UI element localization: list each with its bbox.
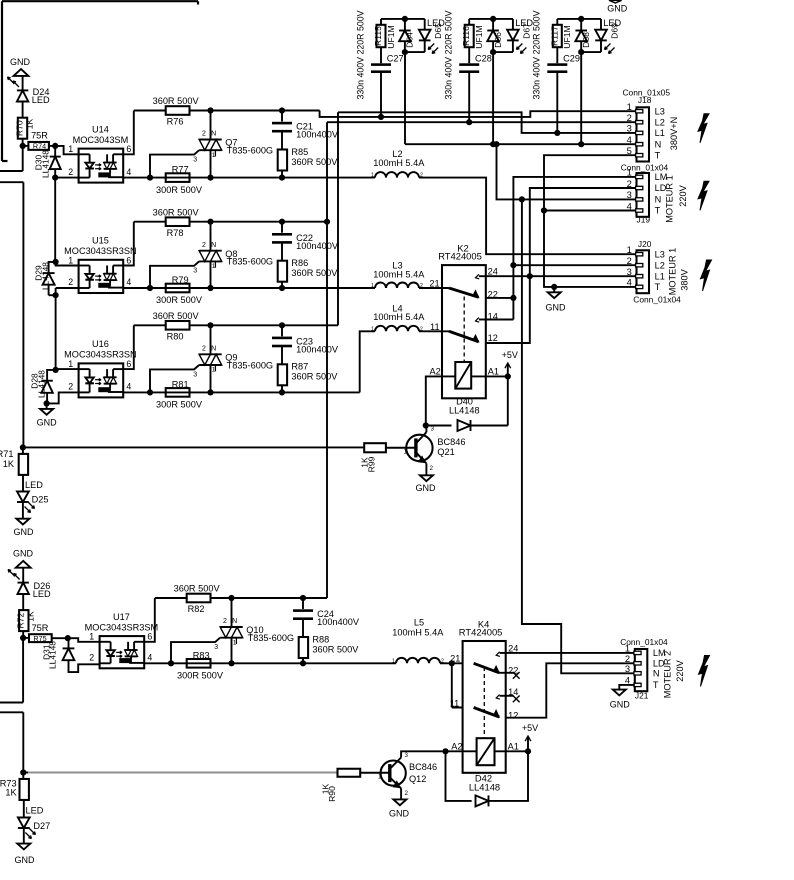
svg-text:+5V: +5V bbox=[522, 723, 538, 733]
svg-text:R82: R82 bbox=[188, 604, 205, 614]
svg-text:2: 2 bbox=[430, 465, 434, 472]
svg-text:D27: D27 bbox=[33, 821, 50, 831]
svg-text:360R 500V: 360R 500V bbox=[291, 157, 338, 167]
svg-text:GND: GND bbox=[10, 57, 31, 67]
svg-text:N: N bbox=[211, 131, 216, 138]
svg-text:R78: R78 bbox=[167, 228, 184, 238]
svg-text:4: 4 bbox=[627, 200, 632, 211]
svg-text:2: 2 bbox=[68, 382, 73, 392]
svg-text:1K: 1K bbox=[24, 118, 34, 129]
svg-text:R70: R70 bbox=[14, 120, 24, 136]
svg-text:2: 2 bbox=[202, 131, 206, 138]
svg-text:360R 500V: 360R 500V bbox=[174, 584, 221, 594]
svg-text:RT424005: RT424005 bbox=[459, 626, 503, 637]
svg-text:12: 12 bbox=[508, 711, 518, 721]
svg-text:1: 1 bbox=[89, 632, 94, 642]
svg-text:GND: GND bbox=[389, 809, 410, 819]
svg-text:11: 11 bbox=[430, 322, 440, 332]
svg-text:300R 500V: 300R 500V bbox=[177, 671, 224, 681]
svg-text:D64: D64 bbox=[405, 32, 415, 48]
svg-text:Q12: Q12 bbox=[409, 774, 426, 784]
svg-text:T: T bbox=[653, 680, 659, 690]
svg-text:3: 3 bbox=[627, 189, 632, 200]
svg-text:3: 3 bbox=[627, 266, 632, 277]
svg-text:D66: D66 bbox=[493, 32, 503, 48]
svg-text:4: 4 bbox=[147, 653, 152, 663]
svg-text:GND: GND bbox=[607, 4, 628, 14]
svg-text:R116: R116 bbox=[461, 26, 471, 46]
svg-text:D68: D68 bbox=[581, 32, 591, 48]
svg-text:4: 4 bbox=[627, 134, 632, 145]
svg-text:L1: L1 bbox=[655, 128, 665, 138]
svg-text:75R: 75R bbox=[31, 131, 48, 141]
svg-text:1: 1 bbox=[68, 144, 73, 154]
svg-text:5: 5 bbox=[627, 145, 632, 156]
svg-text:1: 1 bbox=[627, 244, 632, 255]
svg-text:21: 21 bbox=[450, 654, 460, 664]
svg-text:J19: J19 bbox=[637, 214, 651, 224]
svg-text:BC846: BC846 bbox=[409, 762, 437, 772]
svg-text:U16: U16 bbox=[92, 339, 109, 349]
svg-text:LED: LED bbox=[26, 806, 44, 816]
svg-text:MOTEUR 1: MOTEUR 1 bbox=[668, 248, 678, 295]
svg-text:U14: U14 bbox=[92, 124, 109, 134]
svg-text:360R 500V: 360R 500V bbox=[153, 311, 200, 321]
svg-text:D67: D67 bbox=[521, 23, 531, 39]
svg-text:R115: R115 bbox=[373, 26, 383, 46]
svg-text:+5V: +5V bbox=[502, 350, 518, 360]
svg-text:LED: LED bbox=[25, 480, 43, 490]
svg-text:GND: GND bbox=[37, 418, 58, 428]
svg-text:R117: R117 bbox=[549, 26, 559, 46]
svg-text:N: N bbox=[232, 618, 237, 625]
svg-text:UF1M: UF1M bbox=[562, 25, 572, 48]
svg-text:T835-600G: T835-600G bbox=[227, 257, 273, 267]
svg-text:3: 3 bbox=[625, 663, 630, 674]
svg-text:360R 500V: 360R 500V bbox=[153, 207, 200, 217]
svg-text:2: 2 bbox=[627, 178, 632, 189]
svg-text:A1: A1 bbox=[488, 366, 499, 376]
svg-text:24: 24 bbox=[488, 266, 498, 276]
svg-text:Conn_01x04: Conn_01x04 bbox=[621, 163, 669, 173]
svg-text:Q21: Q21 bbox=[437, 447, 454, 457]
svg-text:1: 1 bbox=[627, 101, 632, 112]
svg-text:R85: R85 bbox=[291, 147, 308, 157]
svg-text:330n 400V 220R 500V: 330n 400V 220R 500V bbox=[444, 10, 454, 99]
svg-text:1: 1 bbox=[68, 255, 73, 265]
svg-text:LL4148: LL4148 bbox=[40, 150, 50, 178]
svg-text:22: 22 bbox=[488, 290, 498, 300]
svg-text:4: 4 bbox=[126, 277, 131, 287]
svg-text:J18: J18 bbox=[638, 95, 652, 105]
svg-text:2: 2 bbox=[627, 255, 632, 266]
svg-text:L5: L5 bbox=[414, 618, 424, 628]
svg-text:C29: C29 bbox=[563, 54, 580, 64]
svg-text:R72: R72 bbox=[16, 612, 26, 628]
svg-text:2: 2 bbox=[89, 653, 94, 663]
svg-text:R77: R77 bbox=[172, 165, 189, 175]
svg-text:12: 12 bbox=[488, 333, 498, 343]
svg-text:UF1M: UF1M bbox=[474, 25, 484, 48]
svg-text:L3: L3 bbox=[655, 106, 665, 116]
svg-text:360R 500V: 360R 500V bbox=[291, 372, 338, 382]
svg-text:GND: GND bbox=[610, 699, 631, 709]
svg-text:6: 6 bbox=[126, 144, 131, 154]
svg-text:100n400V: 100n400V bbox=[296, 344, 339, 354]
svg-text:380V: 380V bbox=[679, 268, 689, 290]
svg-text:2: 2 bbox=[405, 790, 409, 797]
svg-text:100n400V: 100n400V bbox=[296, 241, 339, 251]
svg-text:N: N bbox=[653, 669, 660, 679]
svg-text:300R 500V: 300R 500V bbox=[156, 295, 203, 305]
svg-text:3: 3 bbox=[405, 752, 409, 759]
svg-text:R81: R81 bbox=[172, 380, 189, 390]
svg-text:GND: GND bbox=[546, 303, 567, 313]
svg-text:6: 6 bbox=[147, 632, 152, 642]
svg-text:1: 1 bbox=[371, 283, 374, 289]
svg-text:4: 4 bbox=[627, 277, 632, 288]
svg-text:N: N bbox=[211, 242, 216, 249]
svg-text:2: 2 bbox=[223, 618, 227, 625]
svg-text:T: T bbox=[655, 282, 661, 292]
svg-text:3: 3 bbox=[627, 123, 632, 134]
svg-text:RT424005: RT424005 bbox=[438, 251, 482, 262]
svg-text:100mH 5.4A: 100mH 5.4A bbox=[373, 158, 425, 168]
svg-text:380V+N: 380V+N bbox=[669, 117, 679, 150]
svg-text:1: 1 bbox=[403, 449, 407, 456]
svg-text:A1: A1 bbox=[508, 742, 519, 752]
svg-text:T835-600G: T835-600G bbox=[248, 633, 294, 643]
svg-text:R99: R99 bbox=[367, 456, 377, 472]
svg-text:N: N bbox=[655, 195, 662, 205]
svg-text:R87: R87 bbox=[291, 362, 308, 372]
svg-text:MOC3043SM: MOC3043SM bbox=[73, 135, 129, 145]
svg-text:R80: R80 bbox=[167, 332, 184, 342]
svg-text:11: 11 bbox=[450, 698, 460, 708]
svg-text:LED: LED bbox=[33, 589, 51, 599]
svg-text:UF1M: UF1M bbox=[386, 25, 396, 48]
svg-text:360R 500V: 360R 500V bbox=[291, 268, 338, 278]
svg-text:L2: L2 bbox=[655, 117, 665, 127]
svg-text:2: 2 bbox=[68, 277, 73, 287]
svg-text:R88: R88 bbox=[312, 634, 329, 644]
svg-text:R90: R90 bbox=[327, 786, 337, 802]
svg-text:4: 4 bbox=[126, 382, 131, 392]
svg-text:1: 1 bbox=[212, 152, 216, 159]
svg-text:1: 1 bbox=[233, 639, 237, 646]
svg-text:R76: R76 bbox=[167, 117, 184, 127]
svg-text:1: 1 bbox=[378, 774, 382, 781]
svg-text:U17: U17 bbox=[113, 612, 130, 622]
svg-text:LL4148: LL4148 bbox=[449, 405, 480, 415]
svg-text:A2: A2 bbox=[451, 742, 462, 752]
svg-text:J21: J21 bbox=[635, 691, 649, 701]
svg-text:3: 3 bbox=[193, 371, 197, 378]
svg-text:75R: 75R bbox=[32, 623, 49, 633]
svg-text:100mH 5.4A: 100mH 5.4A bbox=[373, 312, 425, 322]
svg-text:L3: L3 bbox=[655, 249, 665, 259]
svg-text:300R 500V: 300R 500V bbox=[156, 400, 203, 410]
svg-text:360R 500V: 360R 500V bbox=[153, 96, 200, 106]
svg-text:2: 2 bbox=[627, 112, 632, 123]
svg-text:220V: 220V bbox=[678, 184, 688, 206]
svg-text:T835-600G: T835-600G bbox=[227, 146, 273, 156]
svg-text:R75: R75 bbox=[33, 634, 46, 643]
svg-text:GND: GND bbox=[14, 527, 35, 537]
svg-text:R79: R79 bbox=[172, 275, 189, 285]
svg-text:100mH 5.4A: 100mH 5.4A bbox=[373, 269, 425, 279]
svg-text:T: T bbox=[655, 150, 661, 160]
svg-text:L2: L2 bbox=[655, 260, 665, 270]
svg-text:1K: 1K bbox=[5, 788, 17, 798]
svg-text:R71: R71 bbox=[0, 449, 14, 459]
svg-text:D25: D25 bbox=[32, 494, 49, 504]
svg-text:100n400V: 100n400V bbox=[317, 617, 360, 627]
svg-text:LED: LED bbox=[32, 95, 50, 105]
svg-text:2: 2 bbox=[202, 346, 206, 353]
svg-text:LL4148: LL4148 bbox=[469, 781, 500, 792]
svg-text:360R 500V: 360R 500V bbox=[312, 644, 359, 654]
svg-text:300R 500V: 300R 500V bbox=[156, 185, 203, 195]
svg-text:4: 4 bbox=[126, 167, 131, 177]
svg-text:6: 6 bbox=[126, 255, 131, 265]
svg-text:330n 400V 220R 500V: 330n 400V 220R 500V bbox=[532, 10, 542, 99]
svg-text:220V: 220V bbox=[675, 659, 685, 681]
svg-text:1K: 1K bbox=[26, 611, 36, 622]
svg-text:3: 3 bbox=[214, 644, 218, 651]
svg-text:T835-600G: T835-600G bbox=[227, 360, 273, 370]
svg-text:GND: GND bbox=[416, 483, 437, 493]
svg-text:GND: GND bbox=[13, 549, 34, 559]
svg-text:3: 3 bbox=[193, 157, 197, 164]
svg-text:1: 1 bbox=[212, 367, 216, 374]
svg-text:LL4148: LL4148 bbox=[48, 641, 58, 669]
svg-text:LL4148: LL4148 bbox=[36, 370, 46, 398]
svg-text:2: 2 bbox=[202, 242, 206, 249]
svg-text:330n 400V 220R 500V: 330n 400V 220R 500V bbox=[355, 10, 365, 99]
svg-text:1: 1 bbox=[392, 658, 395, 664]
svg-text:14: 14 bbox=[488, 312, 498, 322]
svg-text:MOTEUR 2: MOTEUR 2 bbox=[663, 651, 673, 698]
svg-text:1: 1 bbox=[212, 263, 216, 270]
svg-text:D65: D65 bbox=[433, 23, 443, 39]
svg-text:N: N bbox=[211, 346, 216, 353]
svg-text:1: 1 bbox=[371, 173, 374, 179]
svg-text:T: T bbox=[655, 206, 661, 216]
svg-text:D69: D69 bbox=[610, 23, 620, 39]
svg-text:N: N bbox=[655, 139, 662, 149]
svg-text:2: 2 bbox=[68, 167, 73, 177]
svg-text:1: 1 bbox=[68, 359, 73, 369]
svg-text:C28: C28 bbox=[475, 54, 492, 64]
svg-text:R86: R86 bbox=[291, 258, 308, 268]
svg-text:Conn_01x04: Conn_01x04 bbox=[620, 637, 668, 647]
svg-text:100mH 5.4A: 100mH 5.4A bbox=[392, 628, 444, 638]
svg-text:21: 21 bbox=[429, 279, 439, 289]
svg-text:100n400V: 100n400V bbox=[296, 130, 339, 140]
svg-text:BC846: BC846 bbox=[437, 437, 465, 447]
svg-text:GND: GND bbox=[15, 855, 36, 865]
svg-text:L1: L1 bbox=[655, 271, 665, 281]
svg-text:MOTEUR 1: MOTEUR 1 bbox=[664, 175, 674, 222]
svg-text:C27: C27 bbox=[387, 54, 404, 64]
svg-text:1K: 1K bbox=[3, 459, 15, 469]
svg-text:3: 3 bbox=[193, 268, 197, 275]
svg-text:6: 6 bbox=[126, 359, 131, 369]
svg-text:A2: A2 bbox=[429, 366, 440, 376]
svg-text:3: 3 bbox=[431, 426, 435, 433]
svg-text:R83: R83 bbox=[193, 650, 210, 660]
svg-text:U15: U15 bbox=[92, 236, 109, 246]
svg-text:R74: R74 bbox=[33, 142, 46, 151]
svg-text:J20: J20 bbox=[638, 239, 652, 249]
